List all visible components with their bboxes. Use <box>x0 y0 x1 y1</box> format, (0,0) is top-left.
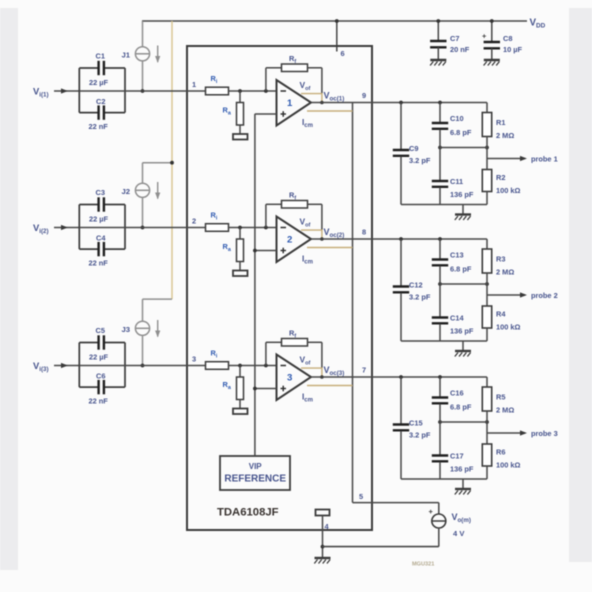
svg-text:C2: C2 <box>96 97 105 106</box>
wire input 3 <box>54 363 79 368</box>
pad Ra ground (3) <box>233 409 248 415</box>
capacitor C17 <box>432 422 474 479</box>
wire network bottom probe 3 <box>401 478 487 480</box>
op-amp 3 <box>277 355 312 401</box>
svg-text:100 kΩ: 100 kΩ <box>496 323 520 332</box>
svg-text:C5: C5 <box>96 326 105 335</box>
wire input 3 to pin <box>125 365 206 367</box>
resistor R5 <box>482 377 514 444</box>
Vof offset box (2) <box>300 217 324 241</box>
figure code <box>412 562 434 568</box>
wire J2 to bus <box>143 161 174 183</box>
svg-text:C12: C12 <box>409 281 423 290</box>
svg-text:R5: R5 <box>496 393 505 402</box>
resistor R6 <box>482 444 520 479</box>
resistor Ri (1) <box>206 74 229 95</box>
capacitor C9 <box>393 103 431 205</box>
wire pin5 line <box>353 502 439 504</box>
svg-text:J1: J1 <box>122 51 131 60</box>
capacitor C8 <box>482 19 523 59</box>
wire J2 drop <box>141 197 145 229</box>
svg-text:1: 1 <box>287 98 293 109</box>
wire output 1 <box>311 102 487 104</box>
wire Icm bus <box>352 103 354 503</box>
Vof offset box (3) <box>300 355 324 379</box>
wire input 1 <box>54 88 79 93</box>
svg-text:probe 2: probe 2 <box>531 291 558 300</box>
pad Ra ground (1) <box>233 134 248 140</box>
svg-text:TDA6108JF: TDA6108JF <box>217 507 279 519</box>
IC TDA6108JF outline <box>187 46 372 530</box>
svg-text:R2: R2 <box>496 173 505 182</box>
current source J3 <box>122 320 161 338</box>
svg-text:C13: C13 <box>450 251 464 260</box>
svg-text:6: 6 <box>341 49 345 58</box>
resistor Ra (2) <box>223 228 244 271</box>
wire coupling box 1 right <box>124 68 126 113</box>
svg-text:22 µF: 22 µF <box>89 215 109 224</box>
svg-text:6.8 pF: 6.8 pF <box>450 265 472 274</box>
wire Ri to minus node (2) <box>229 226 277 230</box>
svg-text:C15: C15 <box>409 419 423 428</box>
svg-text:136 pF: 136 pF <box>450 465 474 474</box>
svg-text:100 kΩ: 100 kΩ <box>496 186 520 195</box>
wire plus input (1) <box>255 113 277 115</box>
node Vi(2) <box>33 222 49 235</box>
svg-text:3.2 pF: 3.2 pF <box>409 156 431 165</box>
wire output 3 <box>311 376 487 378</box>
pin 3 <box>192 355 196 364</box>
wire Ri to minus node (3) <box>229 364 277 368</box>
capacitor C11 <box>432 148 474 205</box>
ground C7 <box>430 60 446 66</box>
pin 9 <box>362 91 366 100</box>
svg-text:+: + <box>429 507 434 516</box>
capacitor C14 <box>432 284 474 341</box>
junction nodes network probe 1 <box>399 101 489 150</box>
svg-text:J3: J3 <box>122 325 131 334</box>
svg-text:J2: J2 <box>122 187 131 196</box>
svg-text:C7: C7 <box>450 34 459 43</box>
svg-text:C14: C14 <box>450 314 464 323</box>
pin 1 <box>192 80 196 89</box>
svg-text:2: 2 <box>192 217 196 226</box>
svg-text:136 pF: 136 pF <box>450 190 474 199</box>
svg-text:3: 3 <box>287 372 292 383</box>
wire J1 drop <box>141 61 145 93</box>
resistor Ra (3) <box>223 366 244 409</box>
svg-text:4 V: 4 V <box>453 529 465 538</box>
ground C8 <box>484 60 500 66</box>
capacitor C10 <box>432 103 472 148</box>
source Vo(m) <box>429 503 446 547</box>
resistor Ra (1) <box>223 91 244 134</box>
resistor Ri (3) <box>206 349 229 370</box>
svg-text:probe 1: probe 1 <box>531 155 558 164</box>
resistor R3 <box>482 239 514 306</box>
wire coupling box 2 left <box>78 205 80 250</box>
svg-text:3: 3 <box>192 355 196 364</box>
node Voc(1) <box>324 91 345 103</box>
probe output probe 2 <box>487 291 558 300</box>
label Icm (3) <box>302 393 313 404</box>
ground network probe 3 <box>455 479 471 495</box>
node Voc(2) <box>324 227 345 239</box>
wire coupling box 3 left <box>78 343 80 388</box>
wire input 1 to pin <box>125 90 206 92</box>
label TDA6108JF <box>217 507 279 519</box>
wire output 2 <box>311 238 487 240</box>
svg-text:C11: C11 <box>450 177 463 186</box>
node Vo(m) <box>452 512 471 538</box>
svg-text:22 nF: 22 nF <box>89 122 109 131</box>
probe output probe 3 <box>487 429 558 438</box>
node Voc(3) <box>324 365 345 377</box>
svg-text:2 MΩ: 2 MΩ <box>496 268 514 277</box>
capacitor C5 <box>79 326 125 362</box>
svg-text:C9: C9 <box>409 144 418 153</box>
pin 6 <box>341 49 345 58</box>
node Vi(1) <box>33 86 49 99</box>
wire noninverting input bus <box>254 114 256 456</box>
svg-text:6.8 pF: 6.8 pF <box>450 403 472 412</box>
pin 4 <box>325 522 330 531</box>
wire bottom <box>323 546 439 548</box>
svg-text:20 nF: 20 nF <box>450 45 470 54</box>
capacitor C15 <box>393 377 431 479</box>
wire J3 drop <box>141 335 145 367</box>
resistor Rf (1) <box>266 54 322 93</box>
svg-text:22 nF: 22 nF <box>89 397 109 406</box>
pin 7 <box>362 366 366 375</box>
resistor R1 <box>482 103 514 170</box>
svg-text:C1: C1 <box>96 52 105 61</box>
svg-text:6.8 pF: 6.8 pF <box>450 128 472 137</box>
resistor R4 <box>482 306 520 341</box>
wire coupling box 1 mid <box>79 90 125 92</box>
wire tap probe 3 <box>440 421 487 423</box>
pin 5 <box>359 492 363 501</box>
svg-text:1: 1 <box>192 80 196 89</box>
wire input 2 <box>54 225 79 230</box>
svg-text:C4: C4 <box>96 234 106 243</box>
svg-text:R6: R6 <box>496 448 505 457</box>
Icm sense line (3) <box>307 385 353 387</box>
junction nodes network probe 2 <box>399 237 489 286</box>
wire network bottom probe 1 <box>401 204 487 206</box>
pad pin4 <box>316 510 330 516</box>
svg-text:136 pF: 136 pF <box>450 327 474 336</box>
svg-text:R4: R4 <box>496 310 506 319</box>
ground network probe 1 <box>455 205 471 221</box>
label Icm (2) <box>302 255 313 266</box>
VIP reference block <box>220 456 290 490</box>
wire J3 to bus <box>143 299 173 321</box>
wire pin6 to VDD <box>335 19 339 51</box>
svg-text:3.2 pF: 3.2 pF <box>409 293 431 302</box>
wire tap probe 2 <box>440 283 487 285</box>
svg-text:7: 7 <box>362 366 366 375</box>
current source J1 <box>122 46 161 64</box>
wire coupling box 1 left <box>78 68 80 113</box>
Icm sense line (2) <box>307 247 353 249</box>
wire J1 to VDD rail <box>142 21 144 47</box>
wire coupling box 3 right <box>124 343 126 388</box>
pad Ra ground (2) <box>233 271 248 277</box>
probe output probe 1 <box>487 155 558 164</box>
capacitor C3 <box>79 188 125 224</box>
svg-text:2 MΩ: 2 MΩ <box>496 406 514 415</box>
wire plus input (2) <box>253 249 277 253</box>
svg-text:+: + <box>482 32 487 41</box>
svg-text:VIP: VIP <box>249 462 263 471</box>
wire coupling box 2 right <box>124 205 126 250</box>
wire network bottom probe 2 <box>401 340 487 342</box>
capacitor C1 <box>79 52 125 88</box>
resistor Ri (2) <box>206 211 229 232</box>
svg-text:C17: C17 <box>450 452 464 461</box>
capacitor C2 <box>79 97 125 131</box>
resistor Rf (2) <box>266 191 322 230</box>
op-amp 2 <box>277 217 312 263</box>
node Vi(3) <box>33 360 49 373</box>
current source J2 <box>122 182 161 200</box>
label Icm (1) <box>302 118 313 129</box>
svg-text:22 µF: 22 µF <box>89 353 109 362</box>
svg-text:C10: C10 <box>450 114 464 123</box>
wire Ri to minus node (1) <box>229 89 277 93</box>
svg-text:C8: C8 <box>503 34 512 43</box>
Vof offset box (1) <box>300 80 324 104</box>
op-amp 1 <box>277 80 312 126</box>
svg-text:100 kΩ: 100 kΩ <box>496 461 520 470</box>
svg-text:22 µF: 22 µF <box>89 78 109 87</box>
wire VDD rail <box>142 20 527 22</box>
ground pin4 <box>314 558 330 564</box>
svg-text:5: 5 <box>359 492 363 501</box>
resistor R2 <box>482 170 520 205</box>
capacitor C13 <box>432 239 472 284</box>
svg-text:2: 2 <box>287 234 292 245</box>
capacitor C4 <box>79 234 125 268</box>
capacitor C16 <box>432 377 472 422</box>
ground network probe 2 <box>455 341 471 357</box>
capacitor C12 <box>393 239 431 341</box>
node VDD <box>530 18 546 30</box>
svg-text:2 MΩ: 2 MΩ <box>496 131 514 140</box>
Icm sense line (1) <box>307 110 353 112</box>
svg-text:C6: C6 <box>96 372 105 381</box>
svg-text:3.2 pF: 3.2 pF <box>409 431 431 440</box>
svg-text:REFERENCE: REFERENCE <box>224 474 286 485</box>
svg-text:MGU321: MGU321 <box>412 562 434 568</box>
wire coupling box 2 mid <box>79 227 125 229</box>
svg-text:C16: C16 <box>450 389 464 398</box>
pin 8 <box>362 228 366 237</box>
wire input 2 to pin <box>125 227 206 229</box>
wire J bus <box>171 21 173 299</box>
svg-text:C3: C3 <box>96 188 105 197</box>
svg-text:probe 3: probe 3 <box>531 429 558 438</box>
capacitor C7 <box>430 19 470 59</box>
junction nodes network probe 3 <box>399 375 489 424</box>
wire tap probe 1 <box>440 147 487 149</box>
svg-text:R3: R3 <box>496 255 505 264</box>
capacitor C6 <box>79 372 125 406</box>
wire plus input (3) <box>253 387 277 391</box>
svg-text:22 nF: 22 nF <box>89 259 109 268</box>
svg-text:10 µF: 10 µF <box>503 45 523 54</box>
svg-text:R1: R1 <box>496 118 505 127</box>
pin 2 <box>192 217 196 226</box>
svg-text:9: 9 <box>362 91 366 100</box>
wire coupling box 3 mid <box>79 365 125 367</box>
resistor Rf (3) <box>266 329 322 368</box>
wire pin4 down <box>321 516 325 558</box>
svg-text:8: 8 <box>362 228 366 237</box>
